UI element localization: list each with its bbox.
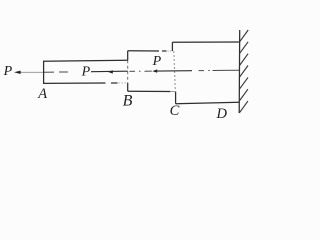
svg-text:P: P xyxy=(3,64,13,79)
svg-text:A: A xyxy=(37,86,47,102)
svg-text:P: P xyxy=(152,54,162,69)
svg-text:P: P xyxy=(81,64,91,79)
svg-text:D: D xyxy=(216,106,228,122)
svg-text:B: B xyxy=(123,92,133,109)
svg-text:C: C xyxy=(170,103,180,119)
